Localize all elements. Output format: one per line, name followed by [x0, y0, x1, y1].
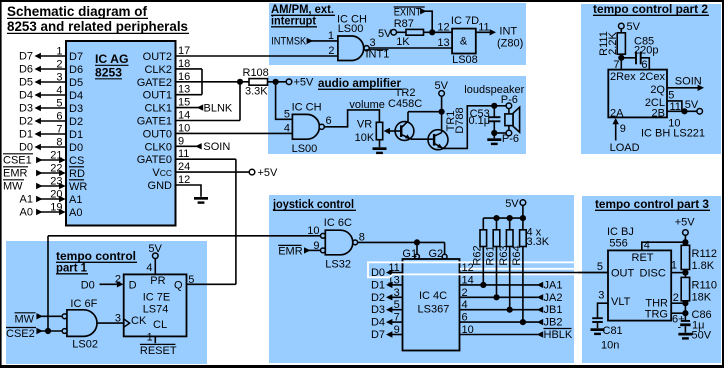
- resistor R108 3.3K: [240, 67, 286, 98]
- svg-text:D3: D3: [69, 103, 83, 115]
- svg-text:556: 556: [609, 238, 627, 250]
- svg-text:8253: 8253: [95, 66, 122, 80]
- svg-text:JA2: JA2: [544, 292, 563, 304]
- node speaker top junction: [491, 103, 512, 109]
- svg-text:19: 19: [50, 202, 62, 214]
- svg-text:0.1μ: 0.1μ: [469, 115, 491, 127]
- svg-text:5: 5: [597, 261, 603, 273]
- wire+pin 22 EMR -> RD: [3, 163, 66, 180]
- svg-text:2A: 2A: [610, 108, 624, 120]
- svg-text:CLK1: CLK1: [144, 103, 172, 115]
- title joystick control: [272, 197, 356, 211]
- node LOAD input (2A pin 9): [610, 118, 640, 154]
- wire TR1 emitter to output node: [443, 106, 494, 149]
- svg-text:HBLK: HBLK: [544, 329, 573, 341]
- wire pin 14 GATE1 up to R108 node: [176, 82, 241, 122]
- svg-text:13: 13: [437, 37, 449, 49]
- svg-text:11: 11: [478, 22, 489, 34]
- svg-text:3.3K: 3.3K: [245, 86, 268, 98]
- svg-text:GATE0: GATE0: [137, 154, 172, 166]
- svg-text:3: 3: [598, 290, 604, 302]
- svg-text:R87: R87: [394, 18, 414, 30]
- label volume: [349, 99, 384, 111]
- IC AG 8253 (programmable interval timer) body: [66, 41, 176, 226]
- svg-text:5: 5: [394, 299, 400, 311]
- label 2.2K (rotated): [607, 32, 619, 55]
- svg-text:joystick control: joystick control: [272, 197, 354, 211]
- wire+pin 3 D2 (LS367 input): [371, 287, 403, 304]
- wire RET pin 4 to +5V: [642, 239, 689, 252]
- svg-text:4: 4: [462, 299, 468, 311]
- wire+pin 23 MW -> WR: [3, 176, 66, 193]
- svg-text:JA1: JA1: [544, 279, 563, 291]
- svg-text:RD: RD: [69, 168, 85, 180]
- svg-text:3: 3: [56, 72, 62, 84]
- resistor R111 2.2K: [617, 33, 625, 70]
- svg-text:D1: D1: [19, 129, 33, 141]
- svg-text:D6: D6: [19, 64, 33, 76]
- label R63 (rotated): [498, 245, 510, 265]
- svg-text:2.2K: 2.2K: [607, 32, 619, 55]
- svg-text:12: 12: [178, 174, 190, 186]
- 5V terminal (PR pin 4): [146, 243, 162, 275]
- svg-text:OUT1: OUT1: [143, 90, 172, 102]
- wire+pin 3 D5 (data bus): [19, 72, 66, 89]
- svg-text:CK: CK: [131, 315, 147, 327]
- node EMR input (LS32 pin 9): [278, 240, 320, 257]
- transistor TR2 C458C: [388, 87, 422, 140]
- svg-text:CLK0: CLK0: [144, 141, 172, 153]
- svg-text:+5V: +5V: [258, 167, 279, 179]
- svg-text:R64: R64: [511, 245, 523, 265]
- svg-text:7: 7: [56, 124, 62, 136]
- svg-text:2: 2: [462, 287, 468, 299]
- ground (C81): [591, 328, 605, 335]
- svg-text:10: 10: [178, 122, 190, 134]
- svg-text:EMR: EMR: [278, 245, 303, 257]
- wire pin 11 GATE0 from LS74 Q: [176, 148, 236, 284]
- ground (VR): [373, 147, 387, 154]
- svg-text:(Z80): (Z80): [497, 38, 523, 50]
- wire TR2 emitter to TR1 base: [411, 138, 434, 140]
- svg-text:5: 5: [56, 98, 62, 110]
- svg-text:D7: D7: [69, 51, 83, 63]
- ground (C53): [487, 138, 501, 145]
- section background: AM/PM ext. interrupt: [269, 3, 526, 65]
- svg-text:21: 21: [50, 150, 62, 162]
- wire TR2 collector to 5V node: [408, 111, 442, 113]
- label 4 x 3.3K: [527, 226, 550, 248]
- svg-text:D5: D5: [69, 77, 83, 89]
- svg-text:LS00: LS00: [338, 23, 364, 35]
- svg-text:VCC: VCC: [152, 167, 172, 179]
- svg-text:IC 7E: IC 7E: [143, 292, 171, 304]
- wire+pin 8 D0 (data bus): [19, 137, 66, 154]
- svg-text:6: 6: [56, 111, 62, 123]
- svg-text:+5V: +5V: [675, 216, 696, 228]
- svg-text:D3: D3: [19, 103, 33, 115]
- svg-text:CS: CS: [69, 155, 84, 167]
- svg-text:1: 1: [328, 30, 334, 42]
- node INTMSK input: [271, 30, 338, 48]
- svg-text:JB2: JB2: [544, 317, 563, 329]
- wire pin 13 OUT1: [176, 84, 203, 96]
- svg-text:Q: Q: [174, 280, 183, 292]
- wire+pin 20 A1 -> A1: [20, 189, 66, 206]
- svg-text:GND: GND: [148, 180, 173, 192]
- svg-text:CL: CL: [153, 319, 167, 331]
- wire LS32 out to G1/G2: [358, 239, 445, 254]
- node RESET input (CL pin 1): [140, 332, 177, 357]
- wire INT (Z80) output: [476, 22, 523, 50]
- svg-text:5: 5: [188, 274, 194, 286]
- section background: tempo control part 2: [581, 4, 721, 154]
- svg-text:VR: VR: [357, 119, 372, 131]
- resistor R63 3.3K pull-up: [506, 218, 513, 310]
- svg-text:CSE2: CSE2: [6, 328, 35, 340]
- svg-text:OUT0: OUT0: [143, 128, 172, 140]
- svg-text:22: 22: [50, 163, 62, 175]
- svg-text:24: 24: [178, 161, 190, 173]
- svg-text:A0: A0: [20, 207, 33, 219]
- svg-text:PR: PR: [150, 275, 165, 287]
- +5V terminal (556): [675, 216, 696, 245]
- node G1 enable (bubble): [402, 248, 419, 260]
- wire+pin 6 JB2 (LS367 output): [460, 312, 563, 329]
- wire pin 15 CLK1 BLNK: [176, 97, 233, 115]
- svg-text:23: 23: [50, 176, 62, 188]
- node EXINT input: [394, 7, 433, 33]
- svg-text:5V: 5V: [685, 99, 699, 111]
- svg-text:9: 9: [620, 123, 626, 135]
- resistor R110 18K: [681, 277, 717, 320]
- node G2 enable (bubble): [429, 248, 448, 260]
- svg-text:tempo control part 3: tempo control part 3: [595, 197, 709, 211]
- wire pin 24 VCC +5V: [176, 161, 279, 179]
- node speaker bottom junction: [491, 130, 512, 138]
- wire pin 17 OUT2 to LS00 input 2: [176, 45, 338, 57]
- svg-text:IC CH: IC CH: [292, 102, 322, 114]
- svg-text:4: 4: [284, 123, 290, 135]
- svg-text:interrupt: interrupt: [271, 14, 316, 28]
- svg-text:2Rex: 2Rex: [610, 71, 636, 83]
- svg-text:5V: 5V: [378, 28, 392, 40]
- svg-text:5V: 5V: [505, 198, 519, 210]
- node 5V/TR1 collector junction: [439, 109, 445, 115]
- svg-text:SOIN: SOIN: [675, 76, 702, 88]
- svg-text:D1: D1: [371, 279, 385, 291]
- wire+pin 13 D1 (LS367 input): [371, 274, 403, 291]
- wire MW/CSE2 to LS32 pin 10 (long): [48, 225, 321, 237]
- potentiometer VR 10K: [355, 119, 402, 145]
- svg-text:14: 14: [462, 274, 474, 286]
- wire+pin 5 D3 (LS367 input): [371, 299, 403, 316]
- flip-flop U-7E LS74: [124, 274, 187, 336]
- label INT1: [366, 49, 390, 61]
- or gate U-6C LS32: [321, 217, 365, 270]
- svg-text:C81: C81: [603, 325, 623, 337]
- svg-text:8: 8: [56, 137, 62, 149]
- capacitor C86 1u 50V (polarized): [678, 309, 712, 342]
- svg-text:9: 9: [394, 324, 400, 336]
- svg-text:17: 17: [178, 45, 190, 57]
- svg-text:6: 6: [462, 312, 468, 324]
- svg-text:10n: 10n: [601, 340, 619, 352]
- wire CSE2 branch up to pin10 line: [47, 236, 49, 331]
- buffer U-4C LS367: [403, 259, 460, 351]
- svg-text:D0: D0: [81, 279, 95, 291]
- wire LS00b out to volume pot: [324, 110, 379, 127]
- svg-text:7: 7: [613, 59, 619, 71]
- svg-text:1: 1: [56, 46, 62, 58]
- svg-text:1: 1: [147, 332, 153, 344]
- and gate U-7D LS08: [437, 15, 479, 66]
- svg-text:D7: D7: [371, 329, 385, 341]
- svg-text:D5: D5: [19, 77, 33, 89]
- svg-text:LS08: LS08: [452, 54, 478, 66]
- wire pin 12 GND: [176, 174, 202, 197]
- svg-text:18K: 18K: [692, 292, 712, 304]
- svg-text:6: 6: [326, 115, 332, 127]
- wire+pin 14 JA1 (LS367 output): [460, 274, 563, 291]
- svg-text:-: -: [678, 322, 682, 334]
- svg-text:2Q: 2Q: [650, 84, 665, 96]
- wire+pin 6 D2 (data bus): [19, 111, 66, 128]
- wire Q pin 5 to GATE0: [187, 274, 236, 286]
- svg-text:9: 9: [178, 135, 184, 147]
- section background: tempo control part 1: [6, 241, 207, 364]
- svg-text:IC 6C: IC 6C: [324, 217, 352, 229]
- wire+pin 1 D7 (data bus): [19, 46, 66, 63]
- title tempo control part 3: [595, 197, 710, 211]
- svg-text:VLT: VLT: [611, 296, 631, 308]
- svg-text:LS74: LS74: [143, 304, 169, 316]
- capacitor C81 10n: [592, 318, 622, 351]
- svg-text:RET: RET: [632, 252, 654, 264]
- section background: joystick control: [269, 195, 574, 363]
- wire TRG pin 6 junction: [671, 310, 688, 325]
- svg-text:&: &: [460, 36, 468, 48]
- resistor R64 3.3K pull-up: [520, 218, 527, 322]
- svg-text:INTMSK: INTMSK: [271, 36, 307, 48]
- svg-text:IC AG: IC AG: [95, 52, 129, 66]
- svg-text:D6: D6: [69, 64, 83, 76]
- svg-text:18: 18: [178, 58, 190, 70]
- svg-text:MW: MW: [15, 314, 35, 326]
- transistor TR1 D788: [428, 112, 448, 150]
- wire SOIN output (2Q pin 5): [667, 76, 704, 102]
- capacitor C85 220p: [634, 36, 658, 70]
- svg-text:4: 4: [146, 262, 152, 274]
- svg-text:LS02: LS02: [72, 339, 98, 351]
- svg-text:A1: A1: [69, 194, 82, 206]
- wire tie CLK2/GATE2/OUT1: [201, 69, 203, 95]
- svg-text:2B: 2B: [652, 108, 665, 120]
- svg-text:12: 12: [437, 21, 449, 33]
- svg-text:D4: D4: [371, 317, 385, 329]
- svg-text:DISC: DISC: [640, 267, 666, 279]
- svg-text:LS00: LS00: [292, 143, 318, 155]
- svg-text:5: 5: [668, 89, 674, 101]
- wire+pin 11 D0 (LS367 input): [371, 262, 403, 279]
- 5V terminal (R111): [619, 21, 641, 33]
- node CSE2 input junction: [6, 328, 63, 341]
- svg-text:R62: R62: [472, 245, 484, 265]
- wire pin 16 GATE2: [176, 71, 241, 83]
- svg-text:4: 4: [56, 85, 62, 97]
- svg-text:4: 4: [644, 240, 650, 252]
- svg-text:14: 14: [178, 110, 190, 122]
- title AM/PM ext. interrupt: [271, 2, 335, 28]
- label D788 (rotated): [454, 107, 466, 133]
- nor gate U-6F LS02: [62, 298, 98, 351]
- svg-text:Schematic diagram of: Schematic diagram of: [7, 3, 147, 19]
- svg-text:CSE1: CSE1: [3, 155, 32, 167]
- node MW input: [15, 313, 63, 326]
- resistor R62 3.3K pull-up: [480, 218, 487, 285]
- svg-text:audio amplifier: audio amplifier: [318, 76, 401, 90]
- svg-text:IC BJ: IC BJ: [607, 226, 634, 238]
- wire 2CL pin 11 to 5V: [667, 101, 682, 113]
- section background: audio amplifier: [268, 76, 526, 154]
- wire+pin 19 A0 -> A0: [20, 202, 66, 219]
- wire+pin 21 CSE1 -> CS: [3, 150, 66, 167]
- svg-text:EMR: EMR: [3, 168, 28, 180]
- label R111 (rotated): [598, 31, 610, 56]
- svg-text:8253 and related peripherals: 8253 and related peripherals: [7, 18, 188, 34]
- svg-text:IC 4C: IC 4C: [419, 290, 447, 302]
- svg-text:11: 11: [388, 262, 399, 274]
- svg-text:D0: D0: [19, 142, 33, 154]
- IC AG inside pin labels (left): [69, 51, 87, 219]
- svg-text:15: 15: [178, 97, 190, 109]
- svg-text:1K: 1K: [396, 36, 410, 48]
- svg-text:D2: D2: [69, 116, 83, 128]
- svg-text:2: 2: [328, 45, 334, 57]
- wire INT1 (LS00a out to LS08 pin 13): [369, 37, 452, 49]
- pin 2 label (LS00a): [328, 45, 334, 57]
- svg-text:5: 5: [284, 109, 290, 121]
- svg-text:BLNK: BLNK: [204, 102, 233, 114]
- wire+pin 5 D3 (data bus): [19, 98, 66, 115]
- 5V terminal (audio amp): [435, 80, 449, 112]
- svg-text:6: 6: [641, 59, 647, 71]
- wire+pin 2 D6 (data bus): [19, 59, 66, 76]
- svg-text:R63: R63: [498, 245, 510, 265]
- wire THR pin 2 junction: [671, 292, 688, 306]
- svg-text:D7: D7: [19, 51, 33, 63]
- svg-text:2: 2: [673, 292, 679, 304]
- svg-text:D4: D4: [19, 90, 33, 102]
- node pull-up junction / +5V terminal (audio): [273, 77, 315, 89]
- svg-text:13: 13: [178, 84, 190, 96]
- section background: tempo control part 3: [582, 196, 721, 363]
- label R62 (rotated): [472, 245, 484, 265]
- svg-text:OUT: OUT: [611, 267, 635, 279]
- IC AG inside pin labels (right): [137, 51, 172, 192]
- resistor R61 3.3K pull-up: [493, 218, 500, 297]
- wire pin 12 LS367 out to 556 OUT (long): [460, 262, 609, 274]
- svg-text:10: 10: [307, 225, 319, 237]
- svg-text:CLK2: CLK2: [144, 64, 172, 76]
- svg-text:part 1: part 1: [56, 261, 87, 275]
- wire+pin 9 D7 (LS367 input): [371, 324, 403, 341]
- svg-text:1.8K: 1.8K: [692, 260, 715, 272]
- svg-text:GATE2: GATE2: [137, 77, 172, 89]
- svg-text:C458C: C458C: [388, 98, 422, 110]
- wire+pin 7 D1 (data bus): [19, 124, 66, 141]
- svg-text:GATE1: GATE1: [137, 116, 172, 128]
- svg-text:D: D: [129, 280, 137, 292]
- wire pin 18 CLK2: [176, 58, 203, 70]
- wire DISC pin 1 junction: [671, 260, 689, 276]
- svg-text:16: 16: [178, 71, 190, 83]
- svg-text:+5V: +5V: [294, 77, 315, 89]
- ground (C86): [678, 333, 692, 340]
- 5V terminal (pull-up array): [505, 198, 526, 218]
- svg-text:R61: R61: [485, 245, 497, 265]
- svg-text:A0: A0: [69, 207, 82, 219]
- title tempo control part 1: [56, 249, 137, 275]
- svg-text:SOIN: SOIN: [203, 141, 230, 153]
- node EXINT/R87 junction: [429, 29, 435, 35]
- node D0 input (pin 2): [81, 274, 124, 292]
- svg-text:D2: D2: [19, 116, 33, 128]
- svg-text:OUT2: OUT2: [143, 51, 172, 63]
- svg-text:220p: 220p: [634, 45, 658, 57]
- title audio amplifier: [318, 76, 402, 90]
- wire 5V bus for pull-ups: [483, 215, 526, 221]
- svg-text:2: 2: [115, 274, 121, 286]
- white highlight around D0 path: [368, 262, 578, 277]
- svg-text:P-6: P-6: [501, 94, 518, 106]
- svg-text:R112: R112: [692, 248, 717, 260]
- svg-text:D0: D0: [69, 142, 83, 154]
- svg-text:tempo control part 2: tempo control part 2: [593, 2, 708, 16]
- svg-text:20: 20: [50, 189, 62, 201]
- monostable U-BH LS221: [608, 59, 705, 140]
- svg-text:R110: R110: [692, 280, 717, 292]
- svg-text:10: 10: [668, 118, 680, 130]
- wire pin 10 OUT0 to LS00b pin 4: [176, 122, 293, 134]
- wire 2B pin 10 to 5V: [667, 99, 703, 130]
- svg-text:3: 3: [115, 312, 121, 324]
- wire+pin 7 D4 (LS367 input): [371, 312, 403, 329]
- wire pull-up node to LS00b pin 5: [276, 82, 293, 120]
- svg-text:D788: D788: [454, 107, 466, 133]
- svg-text:LS32: LS32: [325, 258, 351, 270]
- wire VR to ground: [379, 140, 381, 148]
- wire+pin 10 HBLK (LS367 output): [460, 324, 573, 341]
- svg-text:D3: D3: [371, 304, 385, 316]
- wire+pin 4 D4 (data bus): [19, 85, 66, 102]
- svg-text:WR: WR: [69, 181, 87, 193]
- wire+pin 2 JA2 (LS367 output): [460, 287, 563, 304]
- svg-text:IC 6F: IC 6F: [70, 298, 97, 310]
- label R64 (rotated): [511, 245, 523, 265]
- svg-text:2: 2: [56, 59, 62, 71]
- svg-text:LOAD: LOAD: [610, 142, 640, 154]
- title tempo control part 2: [593, 2, 709, 16]
- svg-text:LS367: LS367: [418, 304, 450, 316]
- wire VLT pin 3 to C81: [598, 290, 609, 319]
- svg-text:IC 7D: IC 7D: [451, 15, 479, 27]
- loudspeaker P-6: [464, 84, 524, 145]
- svg-text:11: 11: [178, 148, 189, 160]
- svg-text:1: 1: [671, 260, 677, 272]
- label TR1 (rotated): [445, 111, 457, 132]
- svg-text:P-6: P-6: [502, 133, 519, 145]
